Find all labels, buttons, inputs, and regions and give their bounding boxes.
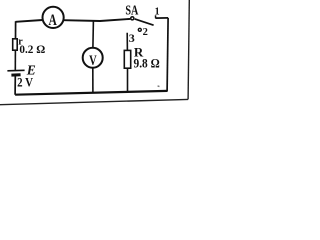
speck artifact	[157, 85, 159, 87]
svg-text:2 V: 2 V	[17, 75, 33, 90]
battery long plate	[7, 69, 24, 72]
svg-text:A: A	[49, 12, 57, 29]
wire R to bottom	[127, 68, 129, 92]
wire battery to bottom	[14, 76, 16, 95]
frame bottom border line	[0, 99, 188, 104]
ammeter A	[43, 7, 64, 30]
frame right border line	[188, 0, 189, 99]
voltmeter V	[83, 48, 103, 69]
battery short plate	[11, 73, 20, 76]
resistor r box	[13, 39, 18, 50]
wire top-right segment (ammeter to switch pivot)	[64, 19, 131, 21]
wire voltmeter bottom branch	[92, 68, 94, 93]
svg-text:1: 1	[155, 6, 160, 17]
terminal 1 tick	[155, 15, 157, 18]
wire r to battery	[14, 50, 16, 70]
svg-text:V: V	[89, 52, 97, 68]
switch SA pivot	[131, 17, 134, 20]
wire right vertical	[167, 18, 168, 91]
wire voltmeter top branch	[92, 21, 95, 48]
svg-text:3: 3	[129, 31, 135, 45]
switch blade	[135, 19, 154, 25]
wire top-right corner stub	[155, 17, 168, 19]
wire bottom	[15, 91, 167, 95]
wire left vertical upper	[15, 21, 17, 39]
svg-text:9.8 Ω: 9.8 Ω	[134, 57, 160, 71]
svg-text:SA: SA	[125, 4, 139, 19]
resistor R box	[124, 50, 130, 68]
svg-text:2: 2	[143, 27, 148, 38]
wire terminal 3 to R	[126, 33, 128, 51]
svg-text:0.2 Ω: 0.2 Ω	[19, 44, 45, 56]
wire top-left segment	[16, 20, 43, 22]
terminal 2 circle	[138, 28, 141, 31]
